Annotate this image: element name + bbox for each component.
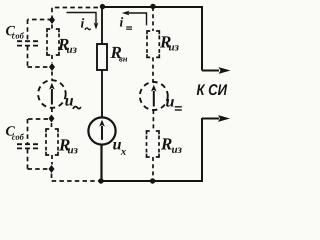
label C_соб (top) bbox=[6, 26, 15, 35]
junction diamond 4 bbox=[49, 165, 55, 173]
wire cap1 top horizontal bbox=[28, 19, 53, 21]
wire top dashed segment from left branch to node A bbox=[52, 8, 103, 21]
wire cap1 bottom horizontal bbox=[28, 66, 53, 68]
wire cap2 lower vertical bbox=[27, 149, 29, 169]
source u_x (solid circle with arrow) bbox=[88, 117, 115, 144]
wire cap2 upper vertical bbox=[27, 119, 29, 144]
wire node B down to R_из right-top bbox=[152, 7, 154, 31]
junction diamond 3 bbox=[49, 115, 55, 123]
label i= bbox=[120, 17, 123, 26]
wire cap2 bottom horizontal bbox=[28, 168, 48, 170]
resistor R_из (left top) bbox=[47, 25, 59, 63]
bottom solid bus bbox=[101, 118, 202, 181]
label i~ bbox=[81, 18, 84, 27]
junction diamond 1 (left axis top) bbox=[49, 16, 55, 24]
wire top solid bus from node A to top-right corner bbox=[103, 6, 204, 8]
current arrow i~ bbox=[67, 13, 99, 30]
upper output arrow to К СИ bbox=[202, 70, 219, 72]
resistor R_из (left bottom) bbox=[46, 123, 58, 165]
junction dot bottom right-axis bbox=[150, 178, 155, 183]
label R_из (right top) bbox=[160, 36, 171, 47]
wire cap1 lower vertical bbox=[27, 46, 29, 67]
junction dot bottom center bbox=[98, 178, 103, 183]
wire u_x to bottom bus bbox=[100, 144, 102, 181]
label C_соб (bottom) bbox=[6, 126, 15, 135]
label R_из (right bottom) bbox=[161, 138, 172, 149]
resistor R_из (right top) bbox=[147, 31, 159, 82]
label u_x bbox=[113, 142, 121, 150]
resistor R_вн (center, solid) bbox=[97, 7, 107, 118]
capacitor C_соб (top) bbox=[17, 41, 38, 45]
current arrow i= bbox=[122, 11, 147, 26]
node A junction dot bbox=[100, 4, 105, 9]
node B junction dot bbox=[150, 4, 155, 9]
capacitor C_соб (bottom) bbox=[17, 144, 38, 148]
wire cap2 top horizontal bbox=[28, 118, 49, 120]
wire diamond4 to bottom bus bbox=[52, 174, 102, 182]
label R_вн bbox=[110, 47, 121, 58]
label u~ bbox=[65, 98, 73, 106]
resistor R_из (right bottom) bbox=[147, 110, 160, 178]
wire right-top vertical to upper output bbox=[201, 7, 203, 71]
wire u~ to diamond 3 bbox=[51, 108, 53, 115]
label R_из (left top) bbox=[58, 39, 69, 50]
label u= bbox=[166, 99, 174, 107]
source u= (dashed circle with arrow) bbox=[140, 82, 168, 110]
source u~ (dashed circle with arrow) bbox=[38, 80, 66, 108]
label R_из (left bottom) bbox=[59, 139, 70, 150]
wire cap1 upper vertical bbox=[27, 20, 29, 41]
wire diamond2 to u~ source bbox=[51, 72, 53, 81]
junction diamond 2 bbox=[49, 63, 55, 71]
lower output arrow to К СИ bbox=[202, 118, 219, 120]
label К СИ (output terminals) bbox=[197, 84, 227, 95]
